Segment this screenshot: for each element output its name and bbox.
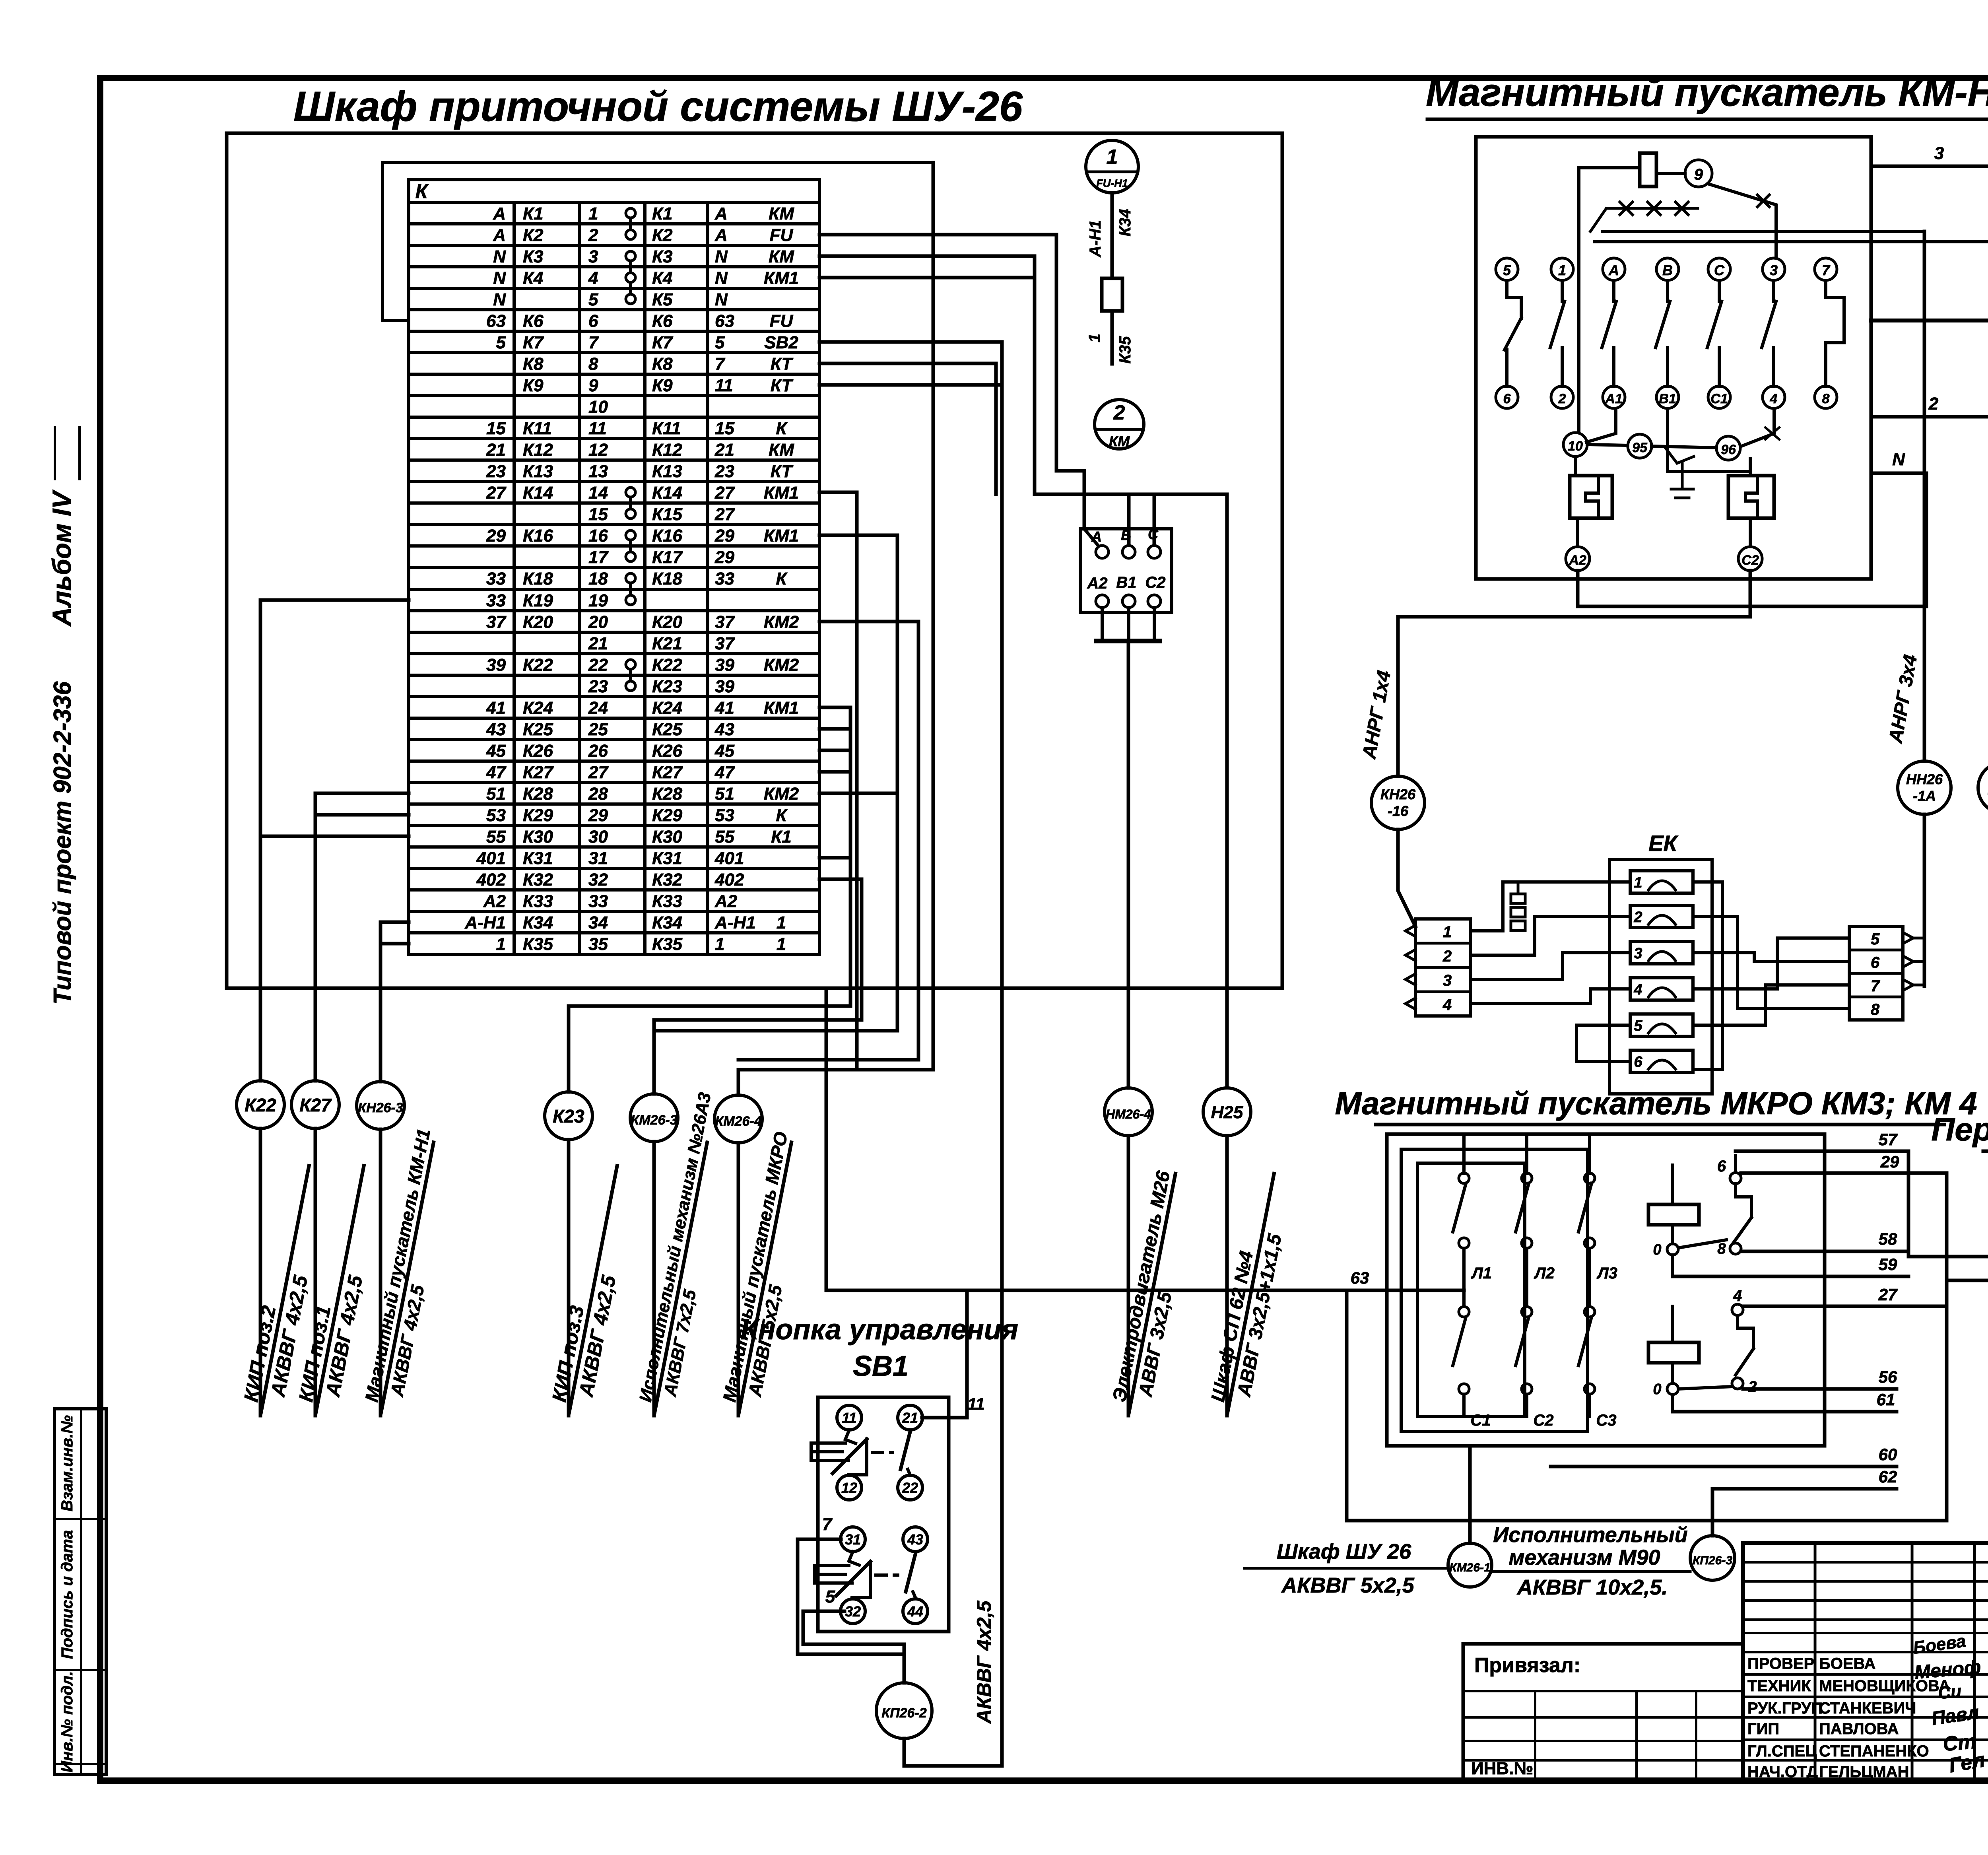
svg-text:КТ: КТ [771,354,794,374]
svg-text:К5: К5 [652,290,673,309]
svg-text:К35: К35 [652,934,683,954]
svg-text:SВ1: SВ1 [853,1350,909,1382]
svg-text:ГЛ.СПЕЦ: ГЛ.СПЕЦ [1747,1742,1817,1760]
wire riser K27 [314,793,317,1081]
svg-text:63: 63 [1351,1268,1369,1287]
svg-text:41: 41 [486,698,506,718]
svg-text:2: 2 [1748,1379,1757,1395]
svg-text:30: 30 [588,827,608,847]
svg-text:22: 22 [902,1480,918,1496]
svg-text:53: 53 [715,806,734,825]
svg-text:К: К [776,806,788,825]
svg-text:21: 21 [714,440,734,460]
svg-text:3: 3 [1443,972,1452,989]
connector circle NM26-4 [1105,1088,1152,1136]
svg-text:Б: Б [1121,527,1131,543]
svg-text:N: N [715,268,728,288]
wire row30 stub to K22 riser [260,835,409,838]
svg-text:КП26-2: КП26-2 [881,1705,926,1721]
svg-text:43: 43 [486,720,506,739]
starter MKRO outer box [1387,1134,1825,1446]
svg-text:К19: К19 [523,591,553,610]
terminal table row lines [409,222,819,225]
svg-text:28: 28 [588,784,608,804]
svg-text:33: 33 [486,569,506,589]
cable label magnitny puskatel MKRO [717,1130,815,1417]
cable stub below K22 [259,1129,262,1416]
heater element EK6 [1630,1050,1693,1072]
cable label KIP poz.2 [238,1162,333,1417]
svg-text:К2: К2 [523,225,544,245]
svg-text:29: 29 [1880,1152,1899,1171]
wire KP26-2 bottom loop [904,1738,1002,1766]
wire riser KM26-1 [1468,1446,1472,1543]
SB1 contact blade 43-44 [914,1552,917,1554]
starter contact В-В1 [1656,258,1679,280]
svg-text:3: 3 [1934,144,1944,163]
svg-text:4: 4 [1442,996,1452,1014]
svg-text:НМ26-4: НМ26-4 [1106,1107,1151,1121]
svg-text:В1: В1 [1659,391,1676,406]
svg-text:59: 59 [1879,1255,1897,1274]
svg-text:58: 58 [1879,1230,1897,1248]
svg-text:1: 1 [1558,262,1566,278]
svg-text:8: 8 [1822,391,1830,406]
connector circle NN26-1A [1898,761,1951,814]
svg-text:13: 13 [588,462,608,481]
svg-text:ЕК: ЕК [1648,831,1678,856]
svg-text:20: 20 [588,612,608,632]
svg-text:27: 27 [486,483,507,503]
svg-text:К9: К9 [523,376,544,395]
terminal circle 9 [1685,160,1712,187]
MKRO terminal 0 lower [1667,1383,1678,1395]
svg-text:А-Н1: А-Н1 [1087,220,1104,257]
svg-text:К8: К8 [652,354,673,374]
svg-text:К7: К7 [652,333,674,352]
svg-text:N: N [493,290,506,309]
svg-text:К35: К35 [1116,336,1134,364]
svg-text:4: 4 [1633,981,1642,998]
svg-text:А: А [1608,262,1619,278]
svg-text:С2: С2 [1533,1412,1553,1429]
svg-text:8: 8 [1871,1001,1880,1018]
wire fuse upper [1110,193,1114,278]
svg-text:6: 6 [588,311,598,331]
bus to N26 [1594,240,1988,243]
wire row19 to K22 [260,598,409,602]
title block signature grid [1814,1543,1817,1781]
heater element EK1 [1630,871,1693,893]
wire row9 stub to SB2 riser [819,383,1002,387]
svg-text:К34: К34 [1116,209,1134,236]
svg-text:Типовой проект 902-2-336: Типовой проект 902-2-336 [49,681,76,1004]
heater element right [1728,476,1774,518]
SB1 dashed link [872,1451,893,1454]
svg-text:К27: К27 [652,763,683,782]
svg-text:25: 25 [588,720,608,739]
svg-text:37: 37 [715,612,735,632]
svg-text:5: 5 [1503,262,1511,278]
SB1 contact circles 31 43 32 44 [841,1527,865,1552]
wire enclosure loop to KM26-4 [738,163,933,1070]
MKRO coil KM3 wires [1671,1165,1674,1204]
cable label shkaf SP62 N4 [1206,1169,1297,1417]
svg-text:КМ: КМ [1109,433,1130,449]
SB1 dashed link [876,1573,898,1577]
svg-text:FU-Н1: FU-Н1 [1096,177,1128,189]
svg-text:К27: К27 [523,763,554,782]
svg-text:4: 4 [1770,391,1778,406]
svg-text:11: 11 [588,419,607,438]
wire drop motor phase B [1127,494,1131,544]
svg-text:АКВВГ 5х2,5: АКВВГ 5х2,5 [1281,1573,1414,1597]
terminal circle C2 [1749,518,1752,547]
svg-text:19: 19 [588,591,608,610]
svg-text:18: 18 [588,569,608,589]
svg-text:КМ26-3: КМ26-3 [631,1113,677,1128]
svg-text:51: 51 [715,784,734,804]
svg-text:-16: -16 [1388,803,1409,819]
svg-text:КМ2: КМ2 [764,655,799,675]
svg-text:К1: К1 [771,827,792,847]
svg-text:К14: К14 [652,483,682,503]
starter contact А-А1 [1603,258,1625,280]
SB1 pushbutton actuator 11-12 [845,1430,856,1443]
connector circle KP26-3 [1690,1536,1735,1580]
svg-text:К30: К30 [652,827,683,847]
svg-text:К31: К31 [523,849,553,868]
svg-text:41: 41 [714,698,734,718]
svg-text:НАЧ.ОТД: НАЧ.ОТД [1747,1763,1818,1781]
bus to NN26-1A [1602,230,1924,233]
svg-text:КМ1: КМ1 [764,483,799,503]
connector circle KM26-4 [737,1070,740,1095]
wire N drop [1871,473,1926,606]
svg-text:С2: С2 [1741,553,1759,568]
svg-text:К25: К25 [523,720,553,739]
svg-text:КМ1: КМ1 [764,526,799,546]
wire rows24-31 right riser to K23 [569,707,850,1006]
wire C2 bus to KN26-16 [1398,571,1750,617]
terminal circle 10 [1563,433,1587,456]
svg-text:К3: К3 [652,247,673,266]
wire row4 KM1 stub [819,276,1035,280]
svg-text:К15: К15 [652,505,683,524]
svg-text:39: 39 [715,655,734,675]
svg-text:КМ2: КМ2 [764,612,799,632]
wire 29 drop to fan box [1947,1173,1988,1280]
svg-text:К23: К23 [652,677,682,696]
svg-text:К18: К18 [652,569,683,589]
svg-text:С1: С1 [1710,391,1728,406]
svg-text:А: А [493,225,506,245]
cable stub below N25 [1225,1136,1229,1416]
svg-text:А2: А2 [1569,553,1586,568]
wire 10 to heater left [1574,456,1577,476]
cable label KIP poz.3 [546,1162,641,1417]
wire 60 [1551,1465,1897,1468]
svg-text:К11: К11 [523,419,552,438]
svg-text:Л3: Л3 [1596,1265,1617,1282]
cable label shkaf SPb2 N4 [1982,847,1988,1070]
heater element EK5 [1630,1014,1693,1036]
svg-text:9: 9 [1694,166,1703,183]
svg-text:ИНВ.№: ИНВ.№ [1471,1759,1533,1778]
SB1 contact circles 11 21 12 22 [837,1405,862,1430]
svg-text:К33: К33 [523,892,553,911]
connector circle KN26-3 [357,1082,404,1129]
svg-text:КМ: КМ [769,440,794,460]
svg-text:К20: К20 [523,612,553,632]
connector circle KP26-2 [876,1683,932,1738]
MKRO relay coil KM3 [1648,1204,1699,1225]
svg-text:3: 3 [1634,945,1642,962]
MKRO contact column Л2 [1525,1134,1528,1173]
svg-text:32: 32 [845,1603,861,1620]
svg-text:А: А [714,225,728,245]
svg-text:14: 14 [588,483,608,503]
svg-text:33: 33 [486,591,506,610]
svg-text:К28: К28 [523,784,553,804]
svg-text:С1: С1 [1470,1412,1491,1429]
svg-text:15: 15 [588,505,608,524]
svg-text:А-Н1: А-Н1 [464,913,506,932]
svg-text:К13: К13 [523,462,553,481]
svg-text:К26: К26 [523,741,553,761]
svg-text:ПРОВЕР: ПРОВЕР [1747,1655,1814,1672]
svg-text:К: К [776,569,788,589]
svg-text:31: 31 [845,1531,861,1548]
svg-text:7: 7 [715,354,726,374]
svg-text:С3: С3 [1596,1412,1616,1429]
svg-text:КН26: КН26 [1380,786,1416,802]
svg-text:27: 27 [714,483,735,503]
svg-text:2: 2 [1113,401,1125,424]
svg-text:401: 401 [714,849,744,868]
wire riser K22 [259,600,262,1081]
svg-text:Шкаф приточной системы: Шкаф приточной системы ШУ-26 [293,83,1023,130]
svg-text:К35: К35 [523,934,553,954]
terminal circle 96 [1716,436,1740,460]
svg-text:3: 3 [1770,262,1778,278]
wire 95 to 96 [1652,446,1716,448]
svg-text:43: 43 [714,720,734,739]
MKRO terminal 0 upper [1667,1244,1678,1255]
svg-text:29: 29 [714,548,734,567]
svg-text:8: 8 [588,354,598,374]
starter MKRO inner box 2 [1401,1149,1588,1432]
svg-text:401: 401 [476,849,506,868]
svg-text:8: 8 [1717,1241,1726,1257]
SB1 pushbutton actuator 31-32 [849,1552,859,1565]
svg-text:27: 27 [714,505,735,524]
svg-text:А2: А2 [1087,575,1107,592]
motor box bottom wires [1101,608,1104,641]
svg-text:47: 47 [486,763,507,782]
cable label shkaf ShU26 [1244,1567,1448,1570]
svg-text:КП26-3: КП26-3 [1693,1554,1732,1567]
svg-text:К22: К22 [652,655,683,675]
wire row14 right exit to KM26-4 bus [819,492,857,1070]
svg-text:КМ: КМ [769,247,794,266]
svg-text:N: N [715,290,728,309]
svg-text:12: 12 [588,440,608,460]
svg-text:К21: К21 [652,634,682,653]
cable label ispolnitelny mekhanizm 26A3 [634,1091,738,1416]
svg-text:КН26-3: КН26-3 [358,1100,403,1115]
marker circle 2 KM [1095,400,1144,449]
wire riser rows3-4 down [1033,256,1037,494]
wire 10 to 95 [1587,445,1628,445]
svg-text:37: 37 [715,634,735,653]
svg-text:К27: К27 [299,1095,332,1115]
svg-text:53: 53 [486,806,506,825]
connector circle K27 [291,1081,339,1129]
wire row2 FU to motor phase A [819,235,1084,529]
svg-text:К30: К30 [523,827,553,847]
svg-text:1: 1 [715,934,724,954]
svg-text:0: 0 [1653,1241,1661,1258]
wire 56 [1743,1387,1897,1391]
svg-text:Л2: Л2 [1534,1265,1555,1282]
svg-text:22: 22 [588,655,608,675]
wire 27 [1743,1305,1947,1308]
wire A1 down [1586,408,1616,442]
svg-text:11: 11 [842,1410,856,1426]
svg-text:6: 6 [1871,954,1880,971]
MKRO contact 4-2 [1732,1304,1743,1315]
MKRO link 0-8 [1679,1240,1726,1248]
wire 59 [1671,1255,1674,1276]
svg-text:НН26: НН26 [1906,771,1943,787]
wire SB1 32 exit 5 [803,1611,904,1644]
svg-text:45: 45 [714,741,734,761]
svg-text:А: А [1091,528,1102,545]
wire KN26-16 to block [1398,829,1415,927]
svg-text:механизм М90: механизм М90 [1508,1546,1660,1569]
thermal relay trip lever [1666,449,1694,463]
svg-text:К26: К26 [652,741,683,761]
svg-text:31: 31 [588,849,608,868]
svg-text:К25: К25 [652,720,683,739]
svg-text:6: 6 [1634,1054,1642,1070]
svg-text:Альбом IV: Альбом IV [47,489,76,627]
svg-text:К22: К22 [523,655,553,675]
wire row35 stub to KN26-3 riser [381,942,409,946]
cable label elektrodvigatel M26 [1107,1169,1199,1417]
wire horizontal bus y1243 [1035,493,1227,496]
svg-text:33: 33 [588,892,608,911]
svg-text:37: 37 [486,612,507,632]
svg-text:Шкаф ШУ 26: Шкаф ШУ 26 [1277,1540,1411,1564]
svg-text:6: 6 [1717,1158,1726,1175]
svg-text:Переключатель пакетный №27-S: Переключатель пакетный №27-SА [1931,1111,1988,1148]
svg-text:5: 5 [825,1587,835,1606]
svg-text:1: 1 [1443,923,1452,941]
crimp marks [1606,207,1698,210]
svg-text:К11: К11 [652,419,681,438]
terminal table outline [409,180,819,954]
svg-text:КМ2: КМ2 [764,784,799,804]
MKRO coil KM4 wires [1671,1306,1674,1342]
svg-text:43: 43 [907,1531,923,1548]
svg-text:Исполнительный: Исполнительный [1493,1523,1687,1547]
wire 3 from KM-N1 [1871,166,1988,761]
svg-text:К6: К6 [652,311,673,331]
svg-text:Инв.№ подл.: Инв.№ подл. [58,1671,76,1773]
svg-text:Подпись и дата: Подпись и дата [58,1530,76,1659]
svg-text:К31: К31 [652,849,682,868]
svg-text:FU: FU [770,225,794,245]
svg-text:5: 5 [496,333,506,352]
title block outline [1743,1543,1988,1781]
terminal block 1-4 [1415,919,1470,1016]
cable stub below KN26-3 [379,1129,382,1416]
svg-text:К14: К14 [523,483,553,503]
wire B1 down [1668,408,1750,472]
connector circle K22 [237,1081,284,1129]
svg-text:К34: К34 [652,913,682,932]
svg-text:СТЕПАНЕНКО: СТЕПАНЕНКО [1819,1742,1929,1760]
wire 4 down to 96 [1741,408,1774,446]
svg-text:23: 23 [714,462,734,481]
svg-text:21: 21 [902,1410,918,1426]
wire SB1 31 exit 7 [798,1539,904,1654]
svg-text:КТ: КТ [771,376,794,395]
heater element EK2 [1630,905,1693,928]
svg-text:61: 61 [1877,1390,1895,1409]
cable stub below NM26-4 [1127,1136,1130,1416]
cable stub below KM26-4 [737,1143,740,1416]
svg-text:4: 4 [1733,1287,1742,1305]
starter MKRO inner box 3 [1417,1163,1525,1416]
svg-text:Н25: Н25 [1211,1103,1243,1122]
svg-text:В: В [1662,262,1673,278]
svg-text:5: 5 [1871,930,1880,948]
svg-text:FU: FU [770,311,794,331]
svg-text:К16: К16 [652,526,683,546]
wire riser KP26-2 [903,1644,906,1683]
EK terminal stack [1511,894,1525,903]
svg-text:33: 33 [715,569,734,589]
svg-text:К32: К32 [652,870,683,890]
svg-text:96: 96 [1721,442,1736,457]
svg-text:24: 24 [588,698,608,718]
svg-text:Си: Си [1937,1682,1962,1703]
MKRO relay coil KM4 [1648,1342,1699,1363]
svg-text:К23: К23 [553,1106,584,1127]
motor terminal box [1080,529,1172,612]
starter contact 5-6 [1496,258,1518,280]
MKRO link 0-2 [1678,1387,1732,1389]
wire 58 [1741,1250,1908,1253]
svg-text:2: 2 [1558,391,1566,406]
EK wiring lower loop [1576,1025,1630,1061]
svg-text:402: 402 [714,870,744,890]
svg-text:Л1: Л1 [1471,1265,1492,1282]
svg-text:21: 21 [588,634,608,653]
svg-text:10: 10 [588,397,608,417]
svg-text:27: 27 [588,763,609,782]
svg-text:Привязал:: Привязал: [1474,1654,1580,1677]
svg-text:К22: К22 [245,1095,276,1115]
svg-text:39: 39 [715,677,734,696]
svg-text:95: 95 [1632,440,1648,455]
wire 2 from KM-N1 [1871,417,1988,761]
svg-text:К3: К3 [523,247,544,266]
wire KM-N1 to KP1-3 to SB31 [1871,319,1988,322]
